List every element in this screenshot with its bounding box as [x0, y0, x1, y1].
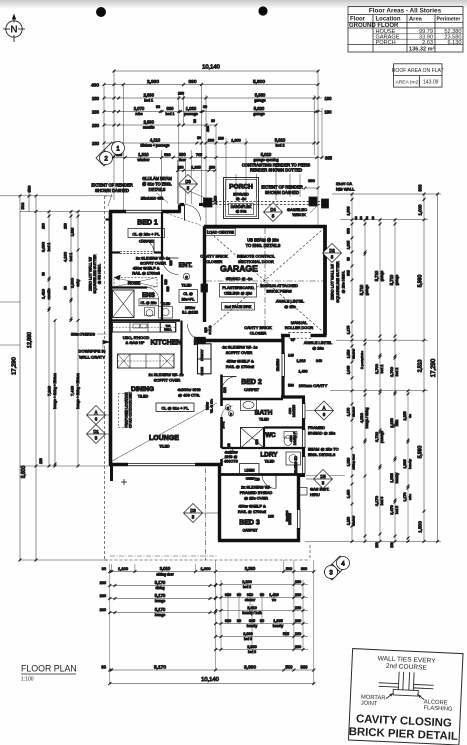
svg-text:890: 890: [179, 152, 187, 157]
svg-text:16x1110: 16x1110: [285, 510, 289, 521]
ldry door arc: [222, 448, 233, 459]
bed2 bottom / bath top wall: [222, 398, 284, 401]
svg-text:90: 90: [193, 119, 197, 123]
svg-text:ENG. DETAILS: ENG. DETAILS: [308, 452, 336, 457]
diamond A/6 left: [87, 406, 106, 425]
svg-text:SOFFIT OVER: SOFFIT OVER: [154, 378, 181, 383]
svg-text:bath: bath: [395, 420, 399, 426]
garage left wall: [203, 227, 206, 323]
svg-text:500: 500: [288, 384, 294, 388]
svg-text:WL @ 25c: WL @ 25c: [210, 399, 214, 413]
ens vanity: [159, 307, 173, 319]
svg-text:4x450w: 4x450w: [224, 451, 237, 455]
paving dash-dot vertical: [205, 468, 207, 560]
svg-text:2nd FACE BRK: 2nd FACE BRK: [225, 304, 252, 309]
svg-text:ROBE: ROBE: [200, 367, 204, 375]
svg-text:ANGLE LINTEL: ANGLE LINTEL: [304, 340, 333, 345]
svg-text:230: 230: [295, 632, 301, 636]
floor areas table: [348, 7, 463, 53]
svg-text:Perimeter: Perimeter: [437, 17, 461, 23]
svg-text:800: 800: [208, 139, 214, 143]
svg-text:@ 25c: @ 25c: [284, 304, 296, 309]
linen closet: [240, 464, 260, 475]
svg-text:lounge: lounge: [155, 613, 165, 617]
svg-text:BATH: BATH: [255, 410, 273, 417]
svg-text:lounge: lounge: [155, 599, 165, 603]
svg-text:Location: Location: [376, 17, 401, 23]
svg-text:3,390: 3,390: [245, 566, 256, 571]
svg-text:990: 990: [301, 664, 309, 669]
svg-text:kitchen + passage: kitchen + passage: [140, 144, 169, 148]
bed2 door arc: [222, 377, 237, 392]
svg-text:GRANO @ -1c: GRANO @ -1c: [226, 276, 253, 281]
svg-text:1,810: 1,810: [138, 152, 149, 157]
svg-text:1,040: 1,040: [347, 366, 351, 375]
svg-text:BEAM @ 25c TO: BEAM @ 25c TO: [308, 447, 339, 452]
svg-text:OBS: OBS: [288, 408, 292, 414]
svg-text:390: 390: [308, 178, 315, 183]
svg-text:robe: robe: [408, 494, 412, 500]
svg-text:laundry: laundry: [273, 624, 284, 628]
svg-text:BED 3: BED 3: [239, 520, 260, 527]
svg-text:2,990: 2,990: [147, 79, 159, 85]
svg-text:985: 985: [347, 270, 351, 276]
svg-text:2,070: 2,070: [134, 106, 145, 111]
svg-text:5,990: 5,990: [418, 275, 424, 288]
svg-text:garage opening: garage opening: [254, 158, 279, 162]
kitchen bench: [113, 323, 176, 333]
svg-text:EXTENT OF RENDER: EXTENT OF RENDER: [91, 183, 132, 188]
top dimension chain 10,140: [114, 70, 318, 72]
svg-text:1,160: 1,160: [118, 566, 129, 571]
svg-text:1,170: 1,170: [347, 408, 351, 417]
svg-text:GP: GP: [291, 338, 296, 342]
svg-text:B'HEAD @ 25c: B'HEAD @ 25c: [308, 431, 335, 436]
svg-text:B.L @125l: B.L @125l: [182, 311, 198, 315]
bath/ldry wall: [222, 447, 306, 449]
svg-text:500: 500: [20, 202, 25, 209]
svg-text:2,700: 2,700: [389, 366, 394, 377]
svg-text:990: 990: [301, 567, 307, 571]
svg-text:230: 230: [92, 141, 100, 146]
svg-text:890: 890: [188, 79, 196, 85]
ldry bottom wall: [218, 473, 305, 476]
svg-text:window: window: [352, 348, 356, 359]
svg-text:90: 90: [347, 257, 351, 261]
svg-text:620: 620: [255, 439, 259, 445]
svg-text:820: 820: [169, 260, 173, 266]
svg-text:340: 340: [316, 359, 322, 363]
svg-text:TILED: TILED: [259, 418, 269, 422]
svg-text:7,240: 7,240: [47, 385, 52, 396]
svg-text:sliding door: sliding door: [156, 572, 174, 576]
punch hole right: [258, 6, 267, 15]
svg-text:10,140: 10,140: [202, 65, 220, 71]
svg-text:CARPET: CARPET: [243, 529, 259, 533]
svg-text:230: 230: [295, 606, 301, 610]
svg-text:230: 230: [92, 96, 100, 101]
svg-text:2,990: 2,990: [143, 93, 154, 98]
svg-text:90: 90: [359, 216, 363, 220]
diamond D6/5: [179, 175, 198, 194]
svg-text:RAIL @ 1700afl: RAIL @ 1700afl: [238, 509, 266, 514]
garage ub beam line: [206, 280, 323, 282]
entry step wall: [178, 205, 181, 213]
svg-text:WALL CAVITY: WALL CAVITY: [79, 355, 105, 360]
svg-text:FLOOR PLAN: FLOOR PLAN: [21, 664, 77, 674]
pantry and robe cells: [198, 344, 212, 374]
svg-text:@ 400 CTS.: @ 400 CTS.: [178, 393, 200, 398]
svg-text:1,000: 1,000: [200, 566, 211, 571]
svg-text:450w SHELF &: 450w SHELF &: [238, 504, 266, 509]
svg-text:ENT.: ENT.: [179, 262, 193, 269]
svg-text:5,010: 5,010: [261, 152, 272, 157]
svg-text:230: 230: [295, 645, 301, 649]
svg-text:LOUNGE: LOUNGE: [149, 435, 179, 442]
svg-text:REC.: REC.: [164, 328, 172, 332]
robe bottom wall: [111, 286, 148, 288]
svg-text:sliding door: sliding door: [352, 454, 356, 469]
svg-text:1,170: 1,170: [403, 493, 407, 502]
svg-text:PORCH: PORCH: [229, 184, 253, 191]
svg-text:230: 230: [39, 458, 43, 464]
svg-text:1,510: 1,510: [347, 350, 351, 359]
svg-text:LINEN: LINEN: [245, 468, 256, 472]
svg-text:PLASTERBOARD: PLASTERBOARD: [222, 285, 254, 290]
svg-text:90: 90: [102, 567, 106, 571]
svg-text:TILED: TILED: [138, 395, 149, 399]
section markers 3 and 4: [324, 556, 350, 580]
lounge bottom wall with sliding door: [109, 463, 128, 467]
svg-text:garage: garage: [254, 99, 265, 103]
svg-text:830: 830: [167, 106, 175, 111]
svg-text:3,720: 3,720: [374, 431, 379, 442]
svg-text:TO ENG. DETAILS: TO ENG. DETAILS: [246, 243, 281, 248]
svg-text:500: 500: [286, 567, 292, 571]
svg-text:230: 230: [375, 542, 379, 548]
svg-text:PANTRY: PANTRY: [200, 349, 204, 361]
svg-text:CLOSER: CLOSER: [206, 259, 223, 264]
svg-text:400CTS: 400CTS: [224, 460, 238, 464]
garage corner pier: [322, 199, 329, 208]
svg-text:2,700: 2,700: [374, 363, 379, 374]
svg-text:window: window: [352, 515, 356, 526]
svg-text:90: 90: [156, 105, 160, 109]
bath shower hatched: [241, 428, 265, 449]
svg-text:90: 90: [365, 216, 369, 220]
svg-text:BRICK PIERS: BRICK PIERS: [266, 289, 292, 294]
svg-text:D2: D2: [329, 248, 335, 253]
svg-text:N: N: [10, 25, 17, 36]
svg-text:FRAMED B'HEAD: FRAMED B'HEAD: [240, 490, 273, 495]
svg-text:window: window: [137, 158, 149, 162]
svg-text:@ 50l HIGH.: @ 50l HIGH.: [98, 264, 102, 284]
svg-text:1,910: 1,910: [347, 458, 351, 467]
scan top shadow: [0, 0, 467, 9]
garage-hall door arc: [188, 324, 205, 341]
tr rec box: [161, 323, 177, 333]
svg-text:DOWNPIPE IN: DOWNPIPE IN: [79, 349, 106, 354]
svg-text:lounge + dining + kitchen: lounge + dining + kitchen: [76, 373, 80, 409]
svg-text:OBS: OBS: [289, 435, 293, 441]
left dimension chains: [0, 195, 110, 197]
svg-text:460: 460: [206, 126, 210, 132]
svg-text:1,005: 1,005: [347, 241, 351, 250]
svg-text:1,585: 1,585: [403, 460, 407, 469]
svg-text:5,990: 5,990: [418, 446, 424, 459]
svg-text:garage: garage: [365, 285, 369, 296]
svg-text:BED 2: BED 2: [241, 379, 262, 386]
svg-text:25x1810 GR: 25x1810 GR: [141, 196, 164, 201]
svg-text:2x SLIDERS W/-: 2x SLIDERS W/-: [241, 485, 271, 490]
svg-text:BED 1: BED 1: [137, 220, 158, 227]
svg-text:300: 300: [418, 184, 423, 192]
svg-text:90: 90: [371, 216, 375, 220]
svg-text:passage: passage: [184, 112, 198, 116]
svg-text:ZERO LOT WALL W/: ZERO LOT WALL W/: [331, 263, 335, 300]
svg-text:136.32 m²: 136.32 m²: [409, 46, 435, 53]
svg-text:CAVITY BRICK: CAVITY BRICK: [200, 254, 228, 259]
roof area box: [394, 64, 443, 87]
garage roof dashed diagonals: [207, 230, 322, 331]
svg-text:90: 90: [203, 105, 207, 109]
svg-text:CLOSER: CLOSER: [250, 331, 267, 336]
svg-text:140: 140: [288, 354, 294, 358]
ldry hall wall: [220, 459, 223, 466]
svg-text:B'PAVED: B'PAVED: [233, 193, 249, 197]
svg-text:DINING: DINING: [131, 386, 154, 393]
svg-text:garage: garage: [253, 112, 264, 116]
svg-text:JOINT: JOINT: [361, 700, 378, 707]
svg-text:ENS: ENS: [142, 292, 155, 299]
ent left wall: [161, 212, 163, 259]
svg-text:5,170: 5,170: [155, 593, 166, 598]
svg-text:wc: wc: [272, 598, 276, 602]
svg-text:TILED: TILED: [161, 302, 171, 306]
svg-text:CAVITY BRICK: CAVITY BRICK: [244, 325, 272, 330]
punch hole left: [96, 7, 106, 17]
svg-text:2,155: 2,155: [403, 412, 407, 421]
svg-text:CREW: CREW: [246, 477, 255, 481]
svg-text:bed 2: bed 2: [276, 144, 285, 148]
diamond D3/5: [184, 504, 203, 523]
svg-text:1:100: 1:100: [21, 677, 34, 683]
entry dashed: [163, 212, 204, 227]
svg-text:garage: garage: [395, 275, 399, 286]
svg-text:D4: D4: [270, 207, 276, 212]
svg-text:1,030: 1,030: [186, 106, 197, 111]
garage / hall+bed2 wall: [195, 339, 283, 342]
ens right wall: [161, 275, 163, 322]
svg-text:SHOWN DASHED: SHOWN DASHED: [95, 188, 129, 193]
svg-text:@ -1c: @ -1c: [236, 197, 246, 201]
svg-text:1,000: 1,000: [347, 207, 351, 216]
svg-text:bed 3: bed 3: [244, 637, 252, 641]
svg-text:laundry: laundry: [395, 472, 399, 483]
svg-text:laundry: laundry: [408, 459, 412, 469]
svg-text:HIRU: HIRU: [310, 492, 320, 497]
svg-text:290: 290: [209, 166, 215, 170]
svg-text:@ 29c HIGH.: @ 29c HIGH.: [342, 271, 346, 294]
svg-text:620: 620: [166, 286, 170, 292]
cavity closing brick pier detail box: [348, 649, 463, 745]
ens toilet: [145, 308, 155, 316]
svg-text:NIB WALL: NIB WALL: [336, 187, 355, 192]
svg-text:14x510 F: 14x510 F: [293, 432, 297, 445]
svg-text:bed 1: bed 1: [166, 112, 175, 116]
svg-text:bed 3: bed 3: [248, 650, 256, 654]
svg-text:230: 230: [92, 109, 100, 114]
svg-text:GLULAM BEAM: GLULAM BEAM: [142, 176, 172, 181]
A/C unit dashed: [119, 394, 128, 428]
bed1 door arc: [141, 240, 154, 253]
svg-text:bed 3: bed 3: [395, 506, 399, 514]
svg-text:1,600: 1,600: [231, 139, 241, 143]
diamond D1/5 left: [87, 425, 106, 444]
garage left wall pier: [201, 284, 208, 292]
svg-text:@ 25c OVER: @ 25c OVER: [244, 496, 268, 501]
svg-text:bed 1: bed 1: [47, 243, 51, 252]
svg-text:230: 230: [42, 223, 46, 229]
svg-text:CARPET: CARPET: [244, 388, 260, 392]
svg-text:dining: dining: [155, 586, 164, 590]
svg-text:D1: D1: [93, 429, 99, 434]
svg-text:FRAMED: FRAMED: [308, 425, 325, 430]
svg-text:14x1210: 14x1210: [292, 405, 296, 417]
cl box dining: [156, 403, 194, 412]
svg-text:5,710: 5,710: [389, 274, 394, 285]
svg-text:bed 2: bed 2: [395, 368, 399, 377]
svg-text:HARDIFLEX: HARDIFLEX: [231, 205, 252, 209]
outer wall left: [109, 212, 113, 466]
diamond D4/5: [264, 203, 283, 222]
svg-text:TILED: TILED: [265, 460, 275, 464]
ent door arc: [162, 258, 179, 275]
svg-text:4,110: 4,110: [150, 138, 161, 143]
jog wall to bath: [281, 395, 305, 398]
svg-text:10,140: 10,140: [201, 677, 219, 683]
svg-text:3,010: 3,010: [160, 566, 171, 571]
svg-text:D5: D5: [320, 474, 326, 479]
bed1 / robe wall: [111, 251, 121, 253]
ldry trough: [286, 452, 301, 465]
svg-text:bed 2: bed 2: [380, 365, 384, 374]
svg-text:@ 31c TO ENG.: @ 31c TO ENG.: [142, 182, 172, 187]
svg-text:5,170: 5,170: [155, 607, 166, 612]
svg-text:passage: passage: [380, 431, 384, 443]
svg-text:1,110: 1,110: [347, 517, 351, 525]
svg-text:3,170: 3,170: [374, 495, 379, 506]
front door opening arc: [185, 205, 201, 221]
svg-text:1,010: 1,010: [297, 359, 306, 363]
svg-text:5,800: 5,800: [253, 79, 265, 85]
svg-text:500: 500: [286, 664, 294, 669]
svg-text:A: A: [323, 405, 326, 410]
svg-text:bed 1: bed 1: [69, 253, 73, 262]
svg-text:2x SLIDERS W/- 1c: 2x SLIDERS W/- 1c: [222, 345, 257, 350]
svg-text:lounge + dining + kitchen: lounge + dining + kitchen: [53, 373, 57, 409]
svg-text:450w SHELF &: 450w SHELF &: [226, 359, 254, 364]
svg-text:garage: garage: [380, 271, 384, 282]
svg-text:5,010: 5,010: [275, 138, 286, 143]
bath door arc: [222, 406, 233, 417]
svg-text:& GAS HP: & GAS HP: [126, 340, 145, 345]
wc top wall: [264, 426, 305, 428]
garage bottom wall right + roller door: [281, 334, 290, 337]
svg-text:460: 460: [91, 82, 99, 88]
svg-text:ZERO LOT WALL W/: ZERO LOT WALL W/: [89, 257, 93, 291]
svg-text:143.09: 143.09: [423, 79, 439, 85]
svg-text:ensuite: ensuite: [143, 126, 155, 130]
svg-text:CL @: CL @: [183, 292, 193, 296]
svg-text:5,710: 5,710: [359, 284, 364, 295]
outer wall left top step: [106, 218, 112, 220]
svg-text:230: 230: [64, 223, 68, 229]
svg-text:REMOTE CONTROL: REMOTE CONTROL: [237, 254, 276, 259]
ens door arc: [147, 288, 159, 300]
svg-text:LDRY: LDRY: [260, 452, 278, 459]
svg-text:230: 230: [295, 593, 301, 597]
hall/bed2 left wall: [220, 375, 223, 407]
svg-text:230: 230: [295, 619, 301, 623]
svg-text:1,000: 1,000: [418, 204, 423, 216]
garage right zero-lot wall: [323, 225, 327, 335]
svg-text:SHOWN DASHED: SHOWN DASHED: [265, 190, 299, 195]
svg-text:230: 230: [218, 137, 224, 141]
svg-text:21cH CA: 21cH CA: [336, 181, 352, 186]
svg-text:SOLID: SOLID: [208, 325, 212, 335]
svg-text:2,150: 2,150: [390, 418, 394, 428]
svg-text:1,385: 1,385: [273, 619, 283, 623]
svg-text:@ 23c: @ 23c: [312, 346, 324, 351]
svg-text:Floor Areas - All Stories: Floor Areas - All Stories: [369, 8, 442, 15]
svg-text:820: 820: [164, 279, 168, 285]
svg-text:PORCH: PORCH: [376, 40, 396, 46]
svg-text:3,600: 3,600: [21, 466, 27, 479]
robe band: [114, 278, 157, 288]
paving cross mark: [121, 481, 127, 483]
svg-text:90: 90: [354, 216, 358, 220]
svg-text:D6: D6: [185, 179, 191, 184]
svg-text:bed 2: bed 2: [243, 585, 251, 589]
svg-text:SQUARELINE GUTTER: SQUARELINE GUTTER: [336, 261, 340, 302]
svg-text:160: 160: [268, 515, 274, 519]
svg-text:230: 230: [92, 123, 100, 128]
bed3 door arc: [262, 475, 276, 489]
svg-text:1,490: 1,490: [347, 490, 351, 499]
lounge roof line: [112, 403, 217, 461]
svg-text:1,510: 1,510: [214, 196, 218, 204]
svg-text:80: 80: [197, 136, 201, 140]
bed2 right wall with window: [281, 334, 284, 354]
svg-text:100mm CAVITY: 100mm CAVITY: [299, 383, 328, 388]
svg-text:580: 580: [164, 153, 170, 157]
ens shower hatched: [113, 290, 135, 318]
svg-text:1,490: 1,490: [299, 370, 308, 374]
kitchen island bench: [118, 354, 175, 368]
svg-text:OF A/C OUTDOOR UNIT: OF A/C OUTDOOR UNIT: [129, 392, 133, 428]
bed3 right wall with window: [297, 474, 300, 510]
diamond D2/5: [323, 244, 342, 263]
svg-text:SQUARELINE GUTTER: SQUARELINE GUTTER: [93, 254, 97, 293]
svg-text:Floor: Floor: [350, 17, 366, 23]
shower/wc divider: [263, 428, 265, 449]
section markers 1 and 2: [96, 142, 125, 167]
kitchen top wall: [111, 319, 181, 322]
svg-text:17,290: 17,290: [12, 357, 18, 375]
bed3 bottom wall: [218, 539, 300, 543]
svg-text:shower: shower: [245, 598, 256, 602]
